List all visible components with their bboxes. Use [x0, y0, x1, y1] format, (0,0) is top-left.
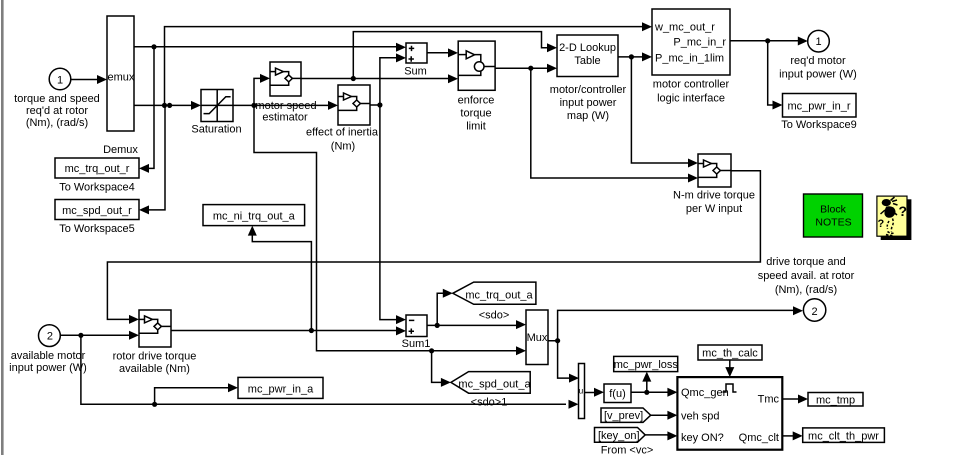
wire branch up to goto mc_trq_out_a [437, 289, 453, 326]
wire branch up to motor speed estimator [254, 74, 270, 106]
svg-text:torque and speed: torque and speed [14, 93, 100, 105]
svg-text:mc_trq_out_a: mc_trq_out_a [465, 290, 533, 302]
svg-text:1: 1 [815, 36, 821, 48]
svg-text:u: u [579, 387, 583, 396]
svg-text:available motor: available motor [11, 350, 86, 362]
selector bar block [579, 364, 585, 419]
Sum block [404, 43, 427, 78]
svg-text:mc_tmp: mc_tmp [816, 395, 855, 407]
svg-text:motor controller: motor controller [653, 79, 730, 91]
wire branch up to mc_ni_trq_out_a bottom [248, 226, 312, 331]
Sum1 block [402, 315, 431, 350]
svg-text:<sdo>1: <sdo>1 [471, 397, 508, 409]
svg-text:P_mc_in_1lim: P_mc_in_1lim [655, 53, 724, 65]
wire effect branch down to Sum1 in1 [380, 105, 406, 324]
svg-text:input power (W): input power (W) [9, 362, 87, 374]
svg-text:rotor drive torque: rotor drive torque [113, 351, 197, 363]
outport 2 [758, 256, 855, 321]
svg-text:mc_spd_out_r: mc_spd_out_r [62, 205, 132, 217]
svg-text:Tmc: Tmc [758, 394, 780, 406]
wire N-m out down-left long to rotor block in1 [107, 171, 760, 324]
mc_pwr_in_a block [238, 377, 323, 398]
mc_clt_th_pwr block [803, 428, 885, 443]
svg-text:Qmc_clt: Qmc_clt [739, 432, 779, 444]
wire Sum1 out to Mux in1 [427, 320, 526, 329]
wire Mux out down to selector bar in1 [558, 341, 579, 383]
svg-text:P_mc_in_r: P_mc_in_r [673, 37, 726, 49]
wire logic out to outport 1 [730, 37, 808, 46]
svg-text:To Workspace9: To Workspace9 [781, 119, 857, 131]
wire demux out1 (torque req) to Sum [134, 43, 406, 52]
svg-text:per W input: per W input [686, 203, 742, 215]
To Workspace9 mc_pwr_in_r [781, 94, 857, 132]
wire rotor out to Sum1 in2 [171, 326, 406, 335]
demux block [103, 16, 138, 156]
svg-text:mc_pwr_in_r: mc_pwr_in_r [788, 101, 851, 113]
svg-text:logic interface: logic interface [657, 93, 725, 105]
goto tag mc_trq_out_a [453, 282, 536, 321]
wire branch speed down to mc_spd_out_r [139, 105, 165, 214]
svg-text:mc_trq_out_r: mc_trq_out_r [65, 163, 130, 175]
svg-text:input power (W): input power (W) [779, 69, 857, 81]
wire branch up to mc_pwr_loss [642, 372, 651, 393]
yellow help icon block [877, 196, 912, 240]
svg-text:enforce: enforce [458, 95, 495, 107]
N-m drive torque per W input block [673, 154, 755, 215]
svg-text:available (Nm): available (Nm) [119, 363, 190, 375]
motor controller logic interface block [652, 9, 730, 105]
svg-text:w_mc_out_r: w_mc_out_r [654, 22, 715, 34]
svg-text:mc_ni_trq_out_a: mc_ni_trq_out_a [213, 211, 296, 223]
wire mc_th_calc down into thermal block [725, 360, 734, 377]
wire demux out2 (speed req) to Saturation [134, 101, 201, 110]
wire effect out branching up to Sum in2 [370, 53, 406, 107]
svg-text:NOTES: NOTES [815, 217, 851, 229]
svg-text:2: 2 [811, 306, 817, 318]
svg-text:emux: emux [108, 72, 135, 84]
from tag v_prev [601, 408, 677, 422]
svg-text:From <vc>: From <vc> [601, 445, 654, 455]
2-D Lookup Table block [550, 35, 627, 122]
enforce torque limit block [458, 41, 495, 132]
svg-text:Demux: Demux [103, 144, 138, 156]
svg-text:2-D Lookup: 2-D Lookup [559, 42, 616, 54]
wire Mux out up to outport 2 [548, 306, 803, 343]
svg-text:estimator: estimator [262, 112, 308, 124]
wire estimator out to enforce torque limit [301, 74, 458, 83]
svg-text:input power: input power [560, 97, 617, 109]
junction on Mux in2 wire [429, 348, 451, 387]
svg-text:motor/controller: motor/controller [550, 84, 627, 96]
svg-text:[key_on]: [key_on] [598, 430, 640, 442]
svg-text:mc_pwr_loss: mc_pwr_loss [614, 359, 679, 371]
svg-text:Saturation: Saturation [191, 124, 241, 136]
svg-text:[v_prev]: [v_prev] [604, 410, 643, 422]
svg-text:2: 2 [47, 330, 53, 342]
svg-text:(Nm), (rad/s): (Nm), (rad/s) [26, 117, 88, 129]
svg-text:1: 1 [57, 75, 63, 87]
wire lookup out to logic interface P_mc_in_1lim [618, 52, 652, 61]
Block NOTES green block [804, 194, 863, 237]
svg-text:Sum1: Sum1 [402, 338, 431, 350]
from tag key_on [595, 428, 678, 455]
Saturation block [191, 90, 241, 136]
svg-text:motor speed: motor speed [255, 100, 316, 112]
wire branch down to mc_pwr_in_r [768, 41, 783, 110]
svg-text:veh spd: veh spd [681, 411, 720, 423]
goto tag mc_spd_out_a [451, 372, 532, 409]
wire inport2 to rotor block in2 [60, 331, 139, 340]
motor speed estimator block [255, 62, 316, 124]
svg-text:<sdo>: <sdo> [479, 310, 510, 322]
wire bar out to f(u) [585, 388, 605, 397]
inport 2 [9, 325, 87, 374]
svg-text:Qmc_gen: Qmc_gen [681, 387, 729, 399]
svg-text:Table: Table [574, 55, 600, 67]
svg-text:limit: limit [466, 121, 486, 133]
svg-text:f(u): f(u) [609, 388, 626, 400]
svg-text:To Workspace4: To Workspace4 [59, 182, 135, 194]
f(u) block [604, 384, 631, 403]
mc_ni_trq_out_a block [203, 205, 305, 226]
To Workspace5 mc_spd_out_r [55, 200, 139, 236]
rotor drive torque available block [113, 310, 197, 375]
svg-text:Block: Block [820, 204, 846, 216]
svg-text:mc_th_calc: mc_th_calc [702, 348, 758, 360]
wire branch up to mc_pwr_in_a [155, 383, 238, 404]
wire branch estimator up to 2-D lookup in1 [353, 32, 557, 79]
svg-text:To Workspace5: To Workspace5 [59, 223, 135, 235]
wire branch to mc_trq_out_r [139, 47, 154, 173]
svg-text:Sum: Sum [404, 66, 427, 78]
svg-text:map (W): map (W) [567, 110, 609, 122]
svg-text:key ON?: key ON? [681, 432, 724, 444]
svg-text:N-m drive torque: N-m drive torque [673, 190, 755, 202]
wire Qmc_clt out to mc_clt_th_pwr [782, 431, 802, 440]
wire branch down along bottom to selector bar in2 [81, 335, 579, 409]
window left border [1, 0, 4, 455]
motor controller thermal block [677, 377, 782, 450]
wire branch lookup down to N-m block in1 [631, 57, 698, 168]
mc_tmp block [808, 393, 863, 407]
wire Tmc out to mc_tmp [782, 395, 808, 404]
svg-text:mc_clt_th_pwr: mc_clt_th_pwr [808, 431, 879, 443]
svg-text:?: ? [899, 203, 908, 219]
svg-text:Mux: Mux [527, 332, 548, 344]
svg-text:torque: torque [460, 108, 491, 120]
svg-text:mc_spd_out_a: mc_spd_out_a [458, 378, 531, 390]
wire branch speed up to logic interface w_mc_out_r [165, 22, 653, 105]
svg-text:req'd motor: req'd motor [790, 55, 846, 67]
svg-text:effect of inertia: effect of inertia [306, 127, 379, 139]
wire branch down to Mux in2 (speed avail) [254, 105, 526, 355]
outport 1 [779, 30, 857, 80]
wire branch enforce down to N-m block in2 [531, 68, 698, 182]
svg-text:(Nm), (rad/s): (Nm), (rad/s) [775, 284, 837, 296]
Mux block [526, 310, 548, 365]
wire f(u) out to Qmc_gen [631, 388, 677, 397]
wire saturation out to effect of inertia [233, 101, 338, 110]
wire Sum out to enforce in1 [427, 48, 458, 57]
mc_pwr_loss block [614, 356, 679, 371]
svg-text:req'd at rotor: req'd at rotor [26, 105, 88, 117]
svg-text:drive torque and: drive torque and [766, 256, 846, 268]
svg-text:(Nm): (Nm) [331, 141, 355, 153]
svg-text:?: ? [878, 218, 885, 230]
To Workspace4 mc_trq_out_r [55, 158, 139, 194]
mc_th_calc block [698, 345, 762, 360]
svg-text:mc_pwr_in_a: mc_pwr_in_a [248, 384, 314, 396]
inport 1 [14, 68, 100, 129]
effect of inertia block [306, 85, 379, 153]
wire enforce out to 2-D lookup in2 [495, 64, 557, 73]
svg-text:speed avail. at rotor: speed avail. at rotor [758, 270, 855, 282]
wire inport1 to demux [71, 75, 108, 84]
